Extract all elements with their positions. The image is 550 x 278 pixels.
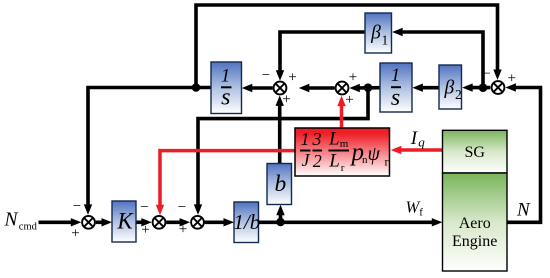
svg-text:K: K xyxy=(116,209,134,234)
wire: 1/b to Aero Engine (W_f line through junction D4) xyxy=(259,218,443,226)
block: red equation block (1/J)(3/2)(Lm/Lr)pn*psi_r xyxy=(295,128,390,176)
svg-text:−: − xyxy=(482,66,490,82)
wire: beta2 output into right 1/s block xyxy=(412,84,439,92)
red wire: equation block top output up into summer SR bottom xyxy=(337,96,345,128)
block 1/s (right integrator) xyxy=(380,63,412,112)
wire: junction D1 up, outer top feedback line, down into summer ST top xyxy=(196,5,502,88)
wire: S1 to block K xyxy=(96,218,112,226)
svg-text:N: N xyxy=(516,199,531,220)
label N_cmd xyxy=(4,210,38,233)
wire: ST output left through junction D3 into beta2 xyxy=(462,83,490,91)
wire: N feedback from Aero Engine right edge up into summer ST right xyxy=(505,83,540,222)
wire: S2 to summer S3 xyxy=(166,218,190,226)
junction dot D3 xyxy=(479,83,488,92)
svg-text:β: β xyxy=(443,77,454,98)
svg-text:m: m xyxy=(340,138,349,150)
svg-text:3: 3 xyxy=(312,129,322,149)
svg-text:1: 1 xyxy=(382,32,389,47)
block beta2 xyxy=(439,65,462,109)
svg-text:cmd: cmd xyxy=(19,221,38,232)
summer ST xyxy=(492,81,505,94)
summer S3 xyxy=(191,216,204,229)
svg-text:L: L xyxy=(328,128,340,149)
svg-text:ψ: ψ xyxy=(368,143,381,165)
svg-text:N: N xyxy=(4,210,19,231)
svg-text:−: − xyxy=(140,199,148,215)
svg-text:1: 1 xyxy=(391,66,400,86)
wire: junction D2 down, left, down into summer S3 top xyxy=(194,88,368,215)
svg-text:1: 1 xyxy=(301,129,310,149)
svg-text:1/b: 1/b xyxy=(233,210,260,234)
svg-text:−: − xyxy=(73,199,81,215)
svg-text:+: + xyxy=(349,69,357,85)
block beta1 xyxy=(365,13,392,53)
svg-text:s: s xyxy=(391,85,400,111)
svg-text:Engine: Engine xyxy=(452,233,497,250)
summer S1 xyxy=(82,216,95,229)
junction dot D1 xyxy=(192,83,201,92)
svg-text:−: − xyxy=(178,199,186,215)
wire: left 1/s output left then down into summer S1 top xyxy=(84,88,211,215)
block K xyxy=(112,201,136,242)
wire: right 1/s output through junction D2 into summer SR right xyxy=(349,84,380,92)
wire: SR output into summer SL right xyxy=(299,84,335,92)
wire: S3 to block 1/b xyxy=(205,218,234,226)
wire: junction D4 up into block b xyxy=(276,205,284,223)
svg-text:r: r xyxy=(341,162,345,174)
svg-text:+: + xyxy=(71,226,79,242)
svg-text:r: r xyxy=(385,155,389,169)
wire: N_cmd input arrow into summer S1 xyxy=(39,218,82,226)
svg-text:+: + xyxy=(288,69,296,85)
block Aero Engine xyxy=(443,173,508,271)
wire: summer SL to left 1/s block xyxy=(242,84,273,92)
svg-text:+: + xyxy=(507,70,515,86)
label I_q xyxy=(410,128,426,149)
wire: K to summer S2 xyxy=(136,218,152,226)
summer SL xyxy=(274,82,287,95)
svg-text:SG: SG xyxy=(464,144,485,161)
red wire: SG output I_q into equation block xyxy=(391,146,443,154)
svg-text:J: J xyxy=(302,150,311,170)
svg-text:β: β xyxy=(370,22,381,43)
block b xyxy=(267,164,292,205)
label W_f xyxy=(406,198,424,219)
svg-text:q: q xyxy=(418,135,425,150)
block 1/s (left integrator) xyxy=(211,62,242,114)
svg-text:s: s xyxy=(221,85,230,111)
svg-text:2: 2 xyxy=(313,151,322,171)
svg-text:b: b xyxy=(275,171,287,197)
svg-text:Aero: Aero xyxy=(459,215,491,232)
wire: junction D3 up and left into beta1 xyxy=(392,28,483,88)
svg-text:W: W xyxy=(406,198,421,217)
svg-text:L: L xyxy=(328,151,340,172)
svg-text:−: − xyxy=(262,68,270,84)
svg-text:2: 2 xyxy=(455,87,462,102)
svg-text:+: + xyxy=(345,92,353,108)
svg-text:f: f xyxy=(419,207,423,219)
red wire: equation block output left then down into summer S2 top xyxy=(156,151,295,216)
svg-text:+: + xyxy=(179,222,187,238)
svg-text:1: 1 xyxy=(221,67,230,87)
summer SR xyxy=(336,82,349,95)
wire: beta1 output left then down into summer SL top xyxy=(276,32,365,81)
junction dot D4 xyxy=(276,218,285,227)
svg-text:+: + xyxy=(141,222,149,238)
block SG xyxy=(443,130,508,173)
junction dot D2 xyxy=(364,83,373,92)
wire: block b up into summer SL bottom xyxy=(276,95,284,163)
block 1/b xyxy=(233,202,260,243)
svg-text:+: + xyxy=(282,91,290,107)
summer S2 xyxy=(153,216,166,229)
